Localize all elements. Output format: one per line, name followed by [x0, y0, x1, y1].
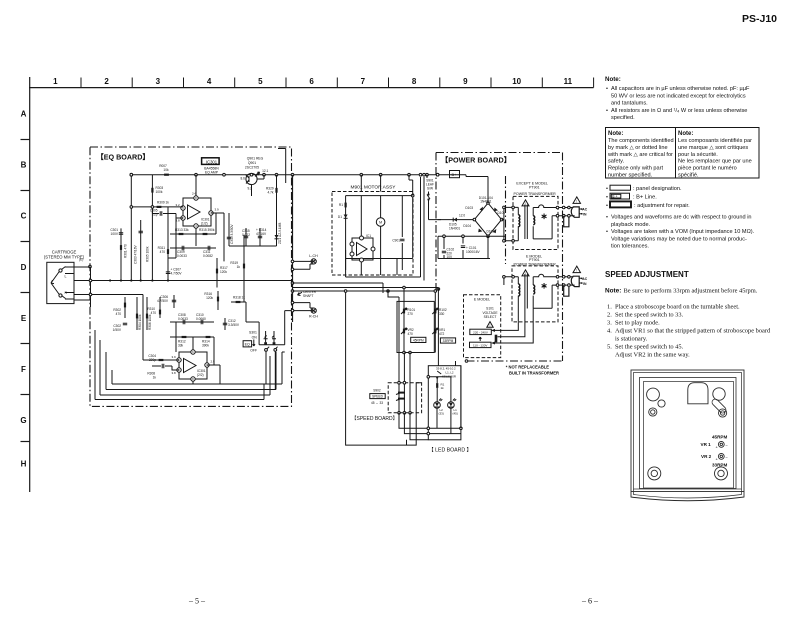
svg-text:1k: 1k — [153, 376, 157, 380]
svg-text:with mark △ are critical for: with mark △ are critical for — [607, 152, 673, 158]
svg-text:50 WV or less are not indicate: 50 WV or less are not indicated except f… — [611, 93, 746, 99]
svg-text:Note:: Note: — [608, 131, 623, 137]
svg-text:D102: D102 — [487, 230, 495, 234]
svg-text:R-CH: R-CH — [309, 315, 318, 319]
svg-text:R306 100k: R306 100k — [148, 314, 152, 330]
svg-text:IN: IN — [583, 282, 587, 286]
svg-text:Adjust VR2 in the same way.: Adjust VR2 in the same way. — [615, 352, 690, 359]
svg-text:Adjust VR1 so that the strippe: Adjust VR1 so that the stripped pattern … — [615, 328, 771, 335]
svg-text:2.9: 2.9 — [211, 360, 216, 364]
svg-text:R301 470: R301 470 — [124, 244, 128, 258]
svg-text:+: + — [716, 445, 719, 450]
svg-text:1000/16V: 1000/16V — [466, 250, 481, 254]
svg-text:Set the speed switch to 33.: Set the speed switch to 33. — [615, 312, 684, 319]
svg-text:•: • — [606, 215, 608, 221]
svg-text:330: 330 — [439, 312, 445, 316]
svg-text:8.6: 8.6 — [241, 177, 246, 181]
svg-text:1.: 1. — [607, 304, 612, 311]
svg-text:PT901: PT901 — [529, 185, 540, 189]
svg-text:Note:: Note: — [678, 131, 693, 137]
svg-text:D103: D103 — [465, 206, 473, 210]
svg-text:4.7k: 4.7k — [268, 190, 274, 194]
svg-text:AC: AC — [582, 277, 587, 281]
svg-text:−: − — [726, 443, 729, 448]
svg-text:470: 470 — [160, 250, 166, 254]
svg-text:B +: B + — [612, 194, 617, 198]
svg-text:and tantalums.: and tantalums. — [611, 101, 648, 107]
svg-text:3.: 3. — [607, 320, 612, 327]
svg-text:EQ: EQ — [245, 343, 250, 347]
svg-text:3: 3 — [156, 77, 161, 86]
svg-text:E: E — [21, 314, 27, 323]
svg-text:0.0060: 0.0060 — [196, 317, 206, 321]
svg-text:470: 470 — [116, 312, 122, 316]
svg-text:33RPM: 33RPM — [712, 463, 727, 468]
svg-text:is stationary.: is stationary. — [615, 336, 648, 343]
svg-text:(45): (45) — [453, 412, 458, 416]
svg-text:3.9: 3.9 — [215, 208, 220, 212]
svg-text:Q901 REG: Q901 REG — [247, 157, 264, 161]
svg-text:playback mode.: playback mode. — [611, 222, 651, 228]
svg-text:S301: S301 — [249, 331, 257, 335]
svg-text:E MODEL: E MODEL — [474, 298, 490, 302]
svg-text:SELECT: SELECT — [484, 315, 497, 319]
svg-text:【EQ BOARD】: 【EQ BOARD】 — [97, 153, 150, 162]
svg-text:D1: D1 — [338, 215, 342, 219]
svg-text:4: 4 — [207, 77, 212, 86]
svg-text:All resistors are in Ω and ¹/₄: All resistors are in Ω and ¹/₄ W or less… — [611, 108, 747, 114]
svg-text:470: 470 — [151, 311, 157, 315]
svg-text:33RPM: 33RPM — [443, 339, 454, 343]
svg-text:une marque △ sont critiques: une marque △ sont critiques — [678, 145, 748, 151]
svg-text:L: L — [65, 275, 67, 279]
svg-text:∗: ∗ — [541, 211, 548, 221]
svg-text:110 - 120V: 110 - 120V — [473, 343, 487, 347]
svg-text:pièce portant le numéro: pièce portant le numéro — [678, 166, 737, 172]
svg-text:220 - 240V: 220 - 240V — [473, 330, 488, 334]
svg-text:100k: 100k — [156, 190, 163, 194]
svg-text:F: F — [21, 365, 26, 374]
svg-text:IN: IN — [583, 212, 587, 216]
svg-text:Note:: Note: — [605, 76, 621, 83]
svg-text:M901 MOTOR ASSY: M901 MOTOR ASSY — [351, 185, 397, 191]
svg-text:VR 1: VR 1 — [701, 442, 712, 447]
svg-text:2.: 2. — [607, 312, 612, 319]
svg-text:: B+ Line.: : B+ Line. — [633, 195, 657, 201]
svg-text:3.8: 3.8 — [172, 371, 177, 375]
svg-text:Set to play mode.: Set to play mode. — [615, 320, 660, 327]
svg-text:4.7/50V: 4.7/50V — [157, 299, 169, 303]
svg-text:R1: R1 — [339, 203, 343, 207]
svg-text:IC301: IC301 — [206, 159, 218, 164]
svg-text:S/W: S/W — [427, 187, 433, 191]
svg-text:: panel designation.: : panel designation. — [633, 186, 682, 192]
svg-text:4.: 4. — [607, 328, 612, 335]
svg-text:pour la sécurité.: pour la sécurité. — [678, 152, 718, 158]
svg-text:number specified.: number specified. — [608, 173, 653, 179]
svg-text:45 ↔ 33: 45 ↔ 33 — [371, 401, 383, 405]
svg-text:9: 9 — [463, 77, 468, 86]
svg-text:!: ! — [490, 323, 491, 327]
svg-text:5.: 5. — [607, 344, 612, 351]
svg-text:safety.: safety. — [608, 159, 625, 165]
svg-text:– 6 –: – 6 – — [581, 597, 599, 606]
svg-text:+: + — [716, 457, 719, 462]
svg-text:7: 7 — [361, 77, 366, 86]
svg-text:33k: 33k — [178, 344, 184, 348]
svg-text:C901: C901 — [392, 239, 400, 243]
svg-text:8: 8 — [412, 77, 417, 86]
svg-text:270: 270 — [408, 312, 414, 316]
svg-text:120k: 120k — [220, 270, 227, 274]
svg-text:Voltages are taken with a VOM: Voltages are taken with a VOM (Input imp… — [611, 229, 755, 235]
svg-text:R304 100k: R304 100k — [138, 314, 142, 330]
svg-text:2: 2 — [104, 77, 109, 86]
svg-text:C303 47/16V: C303 47/16V — [134, 245, 138, 264]
svg-text:(2/2): (2/2) — [197, 373, 204, 377]
svg-text:EQ AMP: EQ AMP — [205, 170, 219, 174]
svg-text:OFF: OFF — [250, 349, 257, 353]
svg-text:0.0033: 0.0033 — [177, 254, 187, 258]
svg-text:The components identified: The components identified — [608, 138, 674, 144]
svg-text:1k: 1k — [441, 386, 445, 390]
svg-text:45RPM: 45RPM — [413, 338, 424, 342]
svg-text:10V: 10V — [447, 255, 454, 259]
svg-text:(1/2): (1/2) — [201, 222, 208, 226]
svg-text:−: − — [726, 455, 729, 460]
svg-text:C313 3.3/50V: C313 3.3/50V — [230, 224, 234, 244]
svg-text:•: • — [606, 86, 608, 92]
svg-text:12.0: 12.0 — [459, 214, 465, 218]
svg-text:A: A — [21, 110, 27, 119]
svg-text:!: ! — [576, 269, 577, 273]
svg-text:472: 472 — [439, 332, 445, 336]
svg-text:10: 10 — [512, 77, 521, 86]
svg-text:: adjustment for repair.: : adjustment for repair. — [634, 203, 690, 209]
svg-text:R318 1k: R318 1k — [233, 296, 245, 300]
svg-text:11: 11 — [564, 77, 573, 86]
svg-text:C: C — [21, 212, 27, 221]
svg-text:BUILT IN TRANSFORMER: BUILT IN TRANSFORMER — [509, 371, 559, 376]
svg-text:tion tolerances.: tion tolerances. — [611, 244, 649, 250]
svg-text:SPEED: SPEED — [372, 395, 384, 399]
svg-text:•: • — [606, 229, 608, 235]
svg-text:•: • — [606, 108, 608, 114]
svg-text:1k: 1k — [237, 265, 241, 269]
svg-text:12.1: 12.1 — [262, 169, 268, 173]
svg-text:B: B — [21, 161, 27, 170]
svg-text:B+: B+ — [452, 172, 458, 177]
svg-text:All capacitors are in µF unles: All capacitors are in µF unless otherwis… — [611, 86, 750, 92]
svg-text:Ne les remplacer que par une: Ne les remplacer que par une — [678, 159, 752, 165]
svg-text:VR 2: VR 2 — [701, 454, 712, 459]
svg-text:Be sure to perform 33rpm adjus: Be sure to perform 33rpm adjustment befo… — [624, 288, 758, 295]
svg-text:【 LED BOARD 】: 【 LED BOARD 】 — [429, 446, 472, 453]
svg-text:Voltage variations may be note: Voltage variations may be noted due to n… — [611, 236, 747, 242]
svg-text:ZD1 UZ-9.1MB: ZD1 UZ-9.1MB — [278, 223, 282, 244]
svg-text:1N4001: 1N4001 — [480, 200, 491, 204]
svg-text:S902: S902 — [373, 389, 381, 393]
svg-text:M: M — [379, 221, 382, 225]
svg-text:IC1: IC1 — [366, 234, 371, 238]
svg-text:2SC2705: 2SC2705 — [245, 165, 259, 169]
svg-text:1N4001: 1N4001 — [449, 227, 460, 231]
svg-text:Voltages and waveforms are dc: Voltages and waveforms are dc with respe… — [611, 215, 752, 221]
svg-text:Note:: Note: — [605, 288, 621, 295]
svg-text:AC: AC — [582, 208, 587, 212]
svg-text:L-CH: L-CH — [309, 254, 318, 258]
svg-text:•: • — [606, 203, 608, 209]
svg-text:3.3/50V: 3.3/50V — [228, 323, 240, 327]
svg-text:PS-J10: PS-J10 — [742, 13, 777, 25]
svg-text:spécifié.: spécifié. — [678, 173, 699, 179]
svg-text:R315 390k: R315 390k — [199, 228, 215, 232]
svg-text:Replace only with part: Replace only with part — [608, 166, 663, 172]
svg-text:H: H — [21, 460, 27, 469]
svg-text:SPEED ADJUSTMENT: SPEED ADJUSTMENT — [605, 270, 689, 279]
svg-text:Set the speed switch to 45.: Set the speed switch to 45. — [615, 344, 684, 351]
svg-text:by mark △ or dotted line: by mark △ or dotted line — [608, 145, 668, 151]
svg-text:220p: 220p — [149, 358, 156, 362]
svg-text:(33): (33) — [439, 412, 444, 416]
svg-text:D: D — [21, 263, 27, 272]
svg-text:•: • — [606, 186, 608, 192]
svg-text:•: • — [606, 195, 608, 201]
svg-text:100V: 100V — [111, 232, 119, 236]
svg-text:22p: 22p — [152, 212, 158, 216]
svg-text:0.0082: 0.0082 — [203, 254, 213, 258]
svg-text:ON: ON — [252, 335, 258, 339]
svg-text:R309 1k: R309 1k — [157, 201, 169, 205]
svg-text:0.0033: 0.0033 — [178, 317, 188, 321]
svg-text:SHAFT: SHAFT — [303, 294, 314, 298]
svg-text:POWER TRANSFORMER: POWER TRANSFORMER — [514, 192, 557, 196]
svg-text:10k: 10k — [163, 168, 169, 172]
svg-text:!: ! — [576, 199, 577, 203]
svg-text:G: G — [20, 416, 26, 425]
svg-text:∗: ∗ — [541, 280, 548, 290]
svg-text:3.9: 3.9 — [172, 355, 177, 359]
svg-text:4.7/50V: 4.7/50V — [171, 272, 183, 276]
svg-text:(STEREO MM TYPE): (STEREO MM TYPE) — [44, 255, 85, 260]
svg-text:470: 470 — [408, 332, 414, 336]
svg-text:【POWER BOARD】: 【POWER BOARD】 — [441, 156, 511, 165]
svg-text:specified.: specified. — [611, 115, 635, 121]
svg-text:R305 100k: R305 100k — [146, 246, 150, 262]
svg-text:1: 1 — [53, 77, 58, 86]
svg-text:R313 33k: R313 33k — [175, 228, 189, 232]
svg-text:120k: 120k — [206, 296, 213, 300]
svg-text:47/16V: 47/16V — [256, 232, 267, 236]
svg-text:【SPEED BOARD】: 【SPEED BOARD】 — [352, 416, 398, 422]
svg-text:* NOT REPLACEABLE: * NOT REPLACEABLE — [506, 365, 549, 370]
svg-text:Les composants identifiés par: Les composants identifiés par — [678, 138, 752, 144]
svg-text:Place a stroboscope board on t: Place a stroboscope board on the turntab… — [615, 304, 740, 311]
svg-text:390k: 390k — [202, 344, 209, 348]
svg-text:0.022: 0.022 — [242, 233, 250, 237]
svg-text:D104: D104 — [463, 224, 471, 228]
svg-text:45RPM: 45RPM — [712, 435, 727, 440]
svg-text:POWER TRANSFORMER: POWER TRANSFORMER — [514, 262, 557, 266]
svg-text:6: 6 — [309, 77, 314, 86]
svg-text:1/50V: 1/50V — [113, 328, 122, 332]
svg-text:5: 5 — [258, 77, 263, 86]
svg-text:– 5 –: – 5 – — [188, 597, 206, 606]
